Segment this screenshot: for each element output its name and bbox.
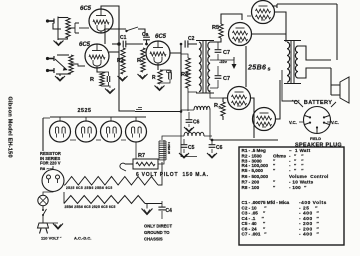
ground	[184, 127, 194, 132]
wire (B+ bus down)	[119, 9, 135, 111]
wire	[97, 68, 102, 72]
wire	[251, 98, 254, 138]
wire	[75, 23, 79, 33]
wire	[135, 117, 137, 121]
heater string 1	[65, 177, 158, 186]
wire	[146, 204, 148, 209]
svg-text:s: s	[268, 67, 271, 73]
tube V6 25B6	[228, 87, 251, 110]
label C7 (upper)	[223, 50, 230, 56]
wire	[145, 203, 162, 205]
svg-text:R8 ∼∼: R8 ∼∼	[40, 166, 54, 171]
svg-text:Volume Control: Volume Control	[289, 174, 329, 179]
label 6C5 (V2)	[79, 42, 91, 48]
resistor R5b	[221, 102, 225, 116]
wire	[102, 86, 110, 88]
label 110 VOLT	[41, 236, 62, 241]
svg-text:C6: C6	[193, 120, 200, 126]
svg-text:-400 Volts: -400 Volts	[299, 200, 327, 206]
svg-text:2525: 2525	[78, 108, 92, 114]
svg-text:6C5: 6C5	[80, 6, 92, 12]
svg-text:C5: C5	[188, 145, 195, 151]
svg-text:25B6: 25B6	[247, 65, 266, 72]
label C6	[216, 145, 223, 151]
label R3	[137, 58, 141, 64]
label R7	[138, 153, 145, 159]
svg-text:C7: C7	[223, 76, 230, 82]
ground	[179, 153, 189, 158]
choke L2	[184, 132, 204, 136]
wire	[247, 16, 260, 34]
label R4	[181, 72, 189, 78]
label 6C5 (V3)	[155, 34, 167, 40]
label C4	[166, 208, 173, 214]
svg-text:6 VOLT PILOT 150 M.A.: 6 VOLT PILOT 150 M.A.	[136, 172, 209, 178]
wire	[136, 108, 142, 110]
wire	[85, 117, 87, 121]
table resistor rows	[242, 148, 329, 190]
note resistor in series	[40, 151, 61, 166]
tube rectifier 25Z5 #4	[126, 121, 147, 142]
wire (speaker line)	[336, 4, 338, 60]
label R2	[90, 77, 94, 83]
wire	[112, 43, 120, 45]
wire	[138, 29, 145, 35]
tube V7 25B6	[253, 108, 276, 131]
resistor R5	[219, 24, 223, 38]
label 6 VOLT PILOT	[136, 172, 209, 178]
label C5	[188, 145, 195, 151]
svg-text:R: R	[152, 75, 156, 81]
potentiometer R6 (volume) arm	[125, 27, 138, 32]
wire	[188, 112, 190, 127]
wire	[282, 70, 297, 101]
wire	[157, 65, 159, 70]
wire	[59, 74, 61, 76]
svg-text:C6 - 24 ″: C6 - 24 ″	[242, 226, 266, 231]
svg-text:R5 - 5,000: R5 - 5,000	[242, 168, 264, 173]
wire	[146, 40, 148, 45]
svg-text:110 VOLT ˝: 110 VOLT ˝	[41, 236, 62, 241]
ground	[207, 153, 217, 158]
wire	[59, 117, 61, 121]
svg-text:R: R	[137, 58, 141, 64]
svg-text:2525 6C5 25B6 25B6 6C5: 2525 6C5 25B6 25B6 6C5	[66, 186, 113, 190]
wire	[276, 4, 278, 8]
capacitor C7 (lower)	[215, 76, 222, 79]
capacitor C6a	[186, 120, 193, 123]
wire	[183, 139, 185, 153]
ground	[54, 41, 64, 46]
wire	[181, 54, 188, 111]
ground (chassis)	[142, 209, 153, 215]
wire	[102, 72, 109, 86]
wire	[63, 192, 65, 204]
capacitor C7 (upper)	[215, 50, 222, 53]
svg-text:V.C.: V.C.	[289, 120, 297, 125]
wire	[330, 68, 332, 95]
ground	[55, 76, 65, 81]
switch S1	[42, 206, 47, 219]
svg-text:- ″ ″: - ″ ″	[289, 168, 304, 173]
wire	[110, 117, 112, 121]
wire	[79, 27, 89, 29]
wire	[298, 68, 331, 78]
wire	[64, 162, 162, 185]
label -22v	[219, 59, 228, 64]
AC plug	[38, 219, 49, 234]
label C BATTERY	[292, 100, 332, 106]
svg-text:FIELD: FIELD	[310, 137, 321, 141]
jack J1 (input)	[46, 17, 68, 40]
wire	[188, 43, 197, 45]
wire	[210, 38, 221, 42]
tube rectifier 25Z5 #2	[76, 121, 97, 142]
svg-text:C3 - .05 ″: C3 - .05 ″	[242, 211, 266, 216]
resistor R1b	[69, 55, 73, 74]
resistor R7 (box)	[133, 159, 158, 169]
speaker horn	[331, 77, 349, 103]
svg-text:- 25 ″: - 25 ″	[299, 205, 318, 211]
resistor R3 (cathode)	[158, 70, 162, 84]
label C1	[120, 35, 127, 41]
svg-text:C7: C7	[223, 50, 230, 56]
label 25Z5	[78, 108, 92, 114]
wire (to T2 primary)	[275, 12, 286, 42]
svg-text:GROUND TO: GROUND TO	[144, 230, 170, 235]
svg-text:C2: C2	[188, 36, 195, 42]
node	[211, 139, 214, 142]
ballast resistor (striped)	[159, 141, 166, 160]
capacitor C2 (to transformer)	[185, 40, 188, 47]
wire	[71, 64, 85, 66]
wire	[210, 66, 218, 88]
svg-text:25B6 25B6 6C5 2525 6C5 6C5: 25B6 25B6 6C5 2525 6C5 6C5	[65, 205, 116, 209]
tube rectifier 25Z5 #3	[101, 121, 122, 142]
label C2	[142, 32, 149, 38]
wire (plate feed)	[180, 44, 182, 111]
wire	[210, 57, 234, 60]
wire	[211, 140, 213, 153]
wire	[299, 121, 331, 123]
label 6C5 (V1)	[80, 6, 92, 12]
wire	[297, 101, 336, 107]
resistor R1	[66, 18, 70, 38]
svg-text:ONLY DIRECT: ONLY DIRECT	[144, 224, 172, 229]
svg-text:Gibson Model EH-150: Gibson Model EH-150	[7, 97, 13, 158]
wire	[209, 110, 211, 140]
capacitor C4	[158, 207, 165, 210]
node	[180, 43, 183, 46]
wire (HT rail)	[212, 139, 278, 141]
svg-text:Ca: Ca	[142, 32, 149, 38]
svg-text:- 400 ″: - 400 ″	[299, 216, 319, 222]
label C6a	[193, 120, 200, 126]
wire	[181, 109, 194, 111]
tube V1 6C5	[89, 9, 113, 33]
resistor R2 (cathode)	[100, 72, 104, 86]
label Rx	[152, 75, 156, 81]
wire (plate lead up)	[104, 29, 106, 44]
label V.C. right	[331, 120, 339, 125]
ground	[155, 86, 165, 91]
svg-text:- 200 ″: - 200 ″	[299, 221, 319, 227]
wire	[217, 42, 219, 60]
title Gibson Model EH-150 (vertical)	[7, 97, 13, 158]
label R8	[40, 166, 54, 171]
wire	[245, 46, 247, 87]
label R5	[212, 25, 219, 31]
svg-text:- 200 ″: - 200 ″	[299, 226, 319, 232]
svg-text:A.C.-D.C.: A.C.-D.C.	[74, 236, 91, 241]
heater string 2	[64, 196, 145, 204]
svg-text:C7 - .001 ″: C7 - .001 ″	[242, 232, 268, 237]
wire	[42, 118, 44, 151]
svg-text:FOR 220 V: FOR 220 V	[40, 161, 61, 166]
capacitor C3	[169, 73, 172, 80]
svg-text:R4: R4	[181, 72, 189, 78]
wire (lower plate to T2)	[276, 80, 280, 119]
receptacle (power socket)	[42, 170, 64, 192]
wire (rectifier top bus)	[50, 116, 146, 118]
svg-text:6C5: 6C5	[79, 42, 91, 48]
wire	[126, 43, 143, 45]
capacitor C6	[209, 145, 216, 148]
parts table box	[239, 147, 344, 245]
svg-text:R7 - 200: R7 - 200	[242, 180, 260, 185]
wire	[210, 90, 223, 98]
svg-text:- 400 ″: - 400 ″	[299, 232, 319, 238]
ground	[138, 74, 148, 79]
label C7 (lower)	[223, 76, 230, 82]
label R5b	[214, 103, 222, 110]
wire	[70, 139, 126, 141]
svg-text:CHASSIS: CHASSIS	[144, 237, 163, 242]
wire	[221, 14, 242, 24]
wire (B+ line)	[135, 111, 181, 113]
tube V5 25B6	[229, 23, 252, 46]
table capacitor rows	[242, 200, 327, 238]
node	[180, 110, 183, 113]
wire	[47, 222, 58, 224]
pilot lamp	[38, 195, 48, 205]
svg-text:- 400 ″: - 400 ″	[299, 211, 319, 217]
wire	[188, 91, 197, 93]
labels heater string 1	[66, 186, 113, 190]
wire	[162, 136, 212, 140]
svg-text:R2: R2	[117, 58, 124, 64]
ground	[118, 76, 128, 81]
label C2	[188, 36, 195, 42]
wire	[272, 5, 277, 7]
wire	[252, 33, 286, 35]
svg-text:V.C.: V.C.	[331, 120, 339, 125]
node	[145, 43, 148, 46]
svg-text:R5: R5	[212, 25, 219, 31]
label A.C.-D.C.	[74, 236, 91, 241]
wire	[158, 140, 164, 164]
svg-text:R: R	[214, 103, 218, 109]
ground	[105, 89, 115, 94]
wire	[223, 98, 228, 120]
wire	[105, 28, 126, 30]
transformer T1 (interstage)	[196, 41, 214, 94]
wire	[170, 44, 181, 53]
wire (top bus)	[277, 3, 337, 5]
wire	[161, 201, 163, 219]
tube V2 6C5	[85, 44, 109, 68]
capacitor C2 (coupling)	[143, 37, 150, 40]
ground	[53, 224, 63, 230]
wire	[101, 6, 119, 44]
svg-text:- 10 Watts: - 10 Watts	[289, 180, 314, 185]
svg-text:C1 - .00075 Mfd - Mica: C1 - .00075 Mfd - Mica	[242, 200, 290, 205]
svg-text:R6 - 500,000: R6 - 500,000	[242, 174, 269, 179]
svg-text:C6: C6	[216, 145, 223, 151]
label R2	[117, 58, 124, 64]
label V.C. left	[289, 120, 297, 125]
wire	[68, 23, 75, 33]
tube rectifier 25Z5 #1	[50, 121, 71, 142]
wire	[181, 112, 197, 157]
tube V4 25B6	[252, 1, 275, 24]
svg-text:3 25B6 25: 3 25B6 25	[167, 142, 171, 155]
tube V3 6C5	[146, 41, 170, 65]
svg-text:6C5: 6C5	[155, 34, 167, 40]
choke L1	[194, 106, 210, 110]
resistor R2 (grid leak)	[121, 48, 125, 74]
label C3	[166, 69, 172, 74]
speaker plug socket	[304, 107, 331, 134]
wire	[298, 46, 331, 60]
svg-text:R: R	[90, 77, 94, 83]
svg-text:- 100 ″: - 100 ″	[289, 185, 307, 190]
node (plates junction)	[117, 42, 121, 46]
svg-text:'C' BATTERY: 'C' BATTERY	[292, 100, 332, 106]
transformer T2 (output)	[284, 41, 301, 84]
battery tap arrow	[232, 57, 237, 69]
wire	[43, 117, 50, 119]
capacitor C2 (bypass)	[107, 76, 109, 82]
pilot lamp hook	[120, 163, 126, 171]
wire	[135, 142, 137, 159]
svg-text:C1: C1	[120, 35, 127, 41]
wire	[109, 51, 119, 53]
resistor R4	[186, 58, 191, 88]
svg-text:C4: C4	[166, 208, 173, 214]
svg-text:R8 - 100: R8 - 100	[242, 185, 260, 190]
tiny text by ballast	[167, 142, 171, 155]
wire	[125, 163, 133, 165]
note only direct ground	[144, 224, 172, 242]
labels heater string 2	[65, 205, 116, 209]
wire	[52, 166, 54, 170]
svg-text:R7: R7	[138, 153, 145, 159]
jack J2 (input)	[46, 55, 70, 74]
label FIELD	[310, 137, 321, 141]
wire	[43, 191, 53, 195]
wire	[57, 39, 59, 40]
resistor R3	[141, 48, 145, 72]
capacitor C1	[123, 41, 126, 48]
label SPEAKER PLUG	[295, 143, 342, 149]
capacitor C5	[181, 145, 188, 148]
wire	[160, 70, 170, 83]
label 25B6s	[247, 65, 271, 73]
